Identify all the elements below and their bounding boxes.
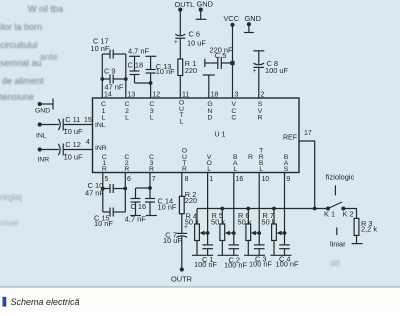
capacitor C18 bbox=[129, 56, 151, 83]
wire VCC to pin3 bbox=[232, 25, 234, 98]
svg-text:2,2 k: 2,2 k bbox=[361, 225, 377, 234]
svg-text:3: 3 bbox=[235, 91, 239, 98]
ground terminal left bbox=[40, 99, 53, 110]
terminal OUTL bbox=[178, 8, 182, 12]
pin name C2L bbox=[125, 101, 130, 122]
svg-text:15: 15 bbox=[84, 117, 92, 124]
svg-text:C 11: C 11 bbox=[65, 115, 80, 124]
svg-text:4,7 nF: 4,7 nF bbox=[128, 46, 149, 55]
svg-text:C 5: C 5 bbox=[215, 51, 227, 60]
svg-text:10 uF: 10 uF bbox=[163, 236, 182, 245]
node wiper R4/pin1 bbox=[206, 231, 210, 235]
IC pin names bbox=[95, 100, 297, 174]
svg-text:10: 10 bbox=[261, 176, 269, 183]
svg-text:de aliment: de aliment bbox=[2, 76, 44, 86]
pin name C1L bbox=[101, 101, 106, 122]
capacitor C14 bbox=[145, 188, 157, 216]
svg-text:L: L bbox=[102, 115, 106, 122]
node wiper R7/pin9 bbox=[283, 231, 287, 235]
wire pin1 column bbox=[207, 173, 209, 245]
pin name C1R bbox=[102, 154, 107, 173]
capacitor C10 bbox=[103, 184, 126, 193]
capacitor C17 bbox=[102, 50, 126, 59]
svg-text:L: L bbox=[180, 118, 184, 125]
node REF/bus bbox=[313, 207, 317, 211]
svg-text:10 nF: 10 nF bbox=[158, 202, 177, 211]
svg-text:GND: GND bbox=[35, 108, 50, 115]
ground bar R5/C2 bbox=[218, 254, 239, 256]
svg-text:liniar: liniar bbox=[330, 239, 346, 248]
svg-text:8: 8 bbox=[185, 176, 189, 183]
wire R2 to C7 bbox=[181, 214, 183, 234]
svg-text:4: 4 bbox=[86, 139, 90, 146]
potentiometer R6 bbox=[246, 209, 259, 256]
IC U1 body bbox=[93, 98, 300, 173]
terminal GND top1 bbox=[199, 8, 203, 12]
potentiometer R7 bbox=[272, 209, 285, 256]
ground GND top2 bbox=[244, 24, 254, 32]
svg-text:C: C bbox=[231, 115, 236, 122]
node pin14/C9 bbox=[100, 77, 104, 81]
svg-text:10 nF: 10 nF bbox=[91, 44, 110, 53]
svg-text:47 nF: 47 nF bbox=[85, 189, 104, 198]
svg-text:GND: GND bbox=[245, 14, 261, 23]
pin name OUTL bbox=[179, 100, 184, 126]
svg-text:INL: INL bbox=[95, 122, 106, 129]
svg-text:circuitului: circuitului bbox=[0, 40, 38, 50]
svg-text:100 nF: 100 nF bbox=[276, 260, 299, 269]
capacitor C5 bbox=[205, 57, 233, 69]
capacitor C4 bbox=[279, 245, 290, 255]
wire pin6 column bbox=[124, 173, 126, 213]
svg-text:50 k: 50 k bbox=[262, 217, 276, 226]
capacitor C15 bbox=[103, 208, 126, 217]
svg-text:C 16: C 16 bbox=[131, 202, 147, 211]
svg-text:W nil tba: W nil tba bbox=[28, 4, 63, 14]
node wiper R5/pin16 bbox=[232, 231, 236, 235]
pin name BAL bbox=[233, 154, 238, 173]
svg-text:C 18: C 18 bbox=[128, 61, 144, 70]
svg-text:11: 11 bbox=[182, 91, 189, 98]
svg-text:R: R bbox=[258, 115, 263, 122]
svg-text:1: 1 bbox=[209, 176, 213, 183]
node wiper R6/pin10 bbox=[257, 231, 261, 235]
svg-text:R: R bbox=[248, 154, 253, 161]
svg-text:L: L bbox=[125, 115, 129, 122]
wire pin13 to C17 bbox=[125, 54, 127, 98]
pin numbers bbox=[84, 91, 312, 183]
potentiometer R5 bbox=[220, 209, 234, 256]
terminal GND left bbox=[38, 102, 42, 106]
node C5/VCC bbox=[230, 61, 234, 65]
ground bar R7/C4 bbox=[271, 254, 292, 256]
svg-text:nivel: nivel bbox=[0, 218, 19, 228]
pin name TRBL bbox=[259, 148, 264, 174]
svg-text:100 uF: 100 uF bbox=[265, 66, 288, 75]
terminal OUTR bbox=[180, 267, 184, 271]
wire R1 to pin11 bbox=[179, 76, 181, 99]
svg-text:+: + bbox=[174, 39, 178, 46]
svg-text:6: 6 bbox=[127, 176, 131, 183]
capacitor C8 bbox=[253, 51, 264, 98]
wire pin8 to R2 bbox=[181, 173, 183, 197]
wire pin7 column bbox=[149, 173, 151, 189]
svg-text:OUTL: OUTL bbox=[175, 0, 195, 9]
node R7 top bbox=[272, 207, 276, 211]
arrowhead wiper R5 bbox=[225, 231, 230, 236]
svg-text:REF: REF bbox=[283, 134, 297, 141]
pin name VCC bbox=[231, 101, 236, 122]
resistor R3 bbox=[354, 218, 359, 235]
pin name C3R bbox=[149, 154, 154, 173]
svg-text:L: L bbox=[150, 115, 154, 122]
svg-text:tensiune: tensiune bbox=[0, 92, 34, 102]
switch position dash liniar bbox=[336, 227, 338, 235]
wire pin16 column bbox=[233, 173, 235, 245]
svg-text:INR: INR bbox=[95, 145, 107, 152]
node pin7/C14 bbox=[148, 186, 152, 190]
svg-text:50 k: 50 k bbox=[211, 217, 225, 226]
svg-text:L: L bbox=[207, 166, 211, 173]
wire C16 top link bbox=[136, 187, 151, 189]
wire pin12 bbox=[150, 83, 152, 98]
wire R3 to ground bbox=[356, 235, 358, 243]
svg-text:17: 17 bbox=[304, 130, 312, 137]
svg-text:GND: GND bbox=[197, 0, 213, 8]
svg-text:220: 220 bbox=[185, 66, 197, 75]
svg-text:INR: INR bbox=[38, 157, 50, 164]
svg-text:D: D bbox=[208, 115, 213, 122]
node K2 contact bbox=[341, 207, 345, 211]
svg-text:VCC: VCC bbox=[224, 14, 240, 23]
svg-text:K 1: K 1 bbox=[324, 209, 335, 218]
svg-text:10 uF: 10 uF bbox=[187, 39, 206, 48]
wire INR to pin4 bbox=[40, 149, 93, 151]
node pin5/C10 bbox=[101, 187, 105, 191]
svg-text:Schema electrică: Schema electrică bbox=[11, 297, 80, 307]
svg-text:16: 16 bbox=[236, 176, 244, 183]
wire pin9 column bbox=[284, 173, 286, 245]
pin name VOL bbox=[206, 154, 211, 173]
terminal INL bbox=[38, 122, 42, 126]
wire pin10 column bbox=[258, 173, 260, 245]
node R5 top bbox=[220, 207, 224, 211]
wire pin5 column bbox=[102, 173, 104, 213]
ground bar pin18 bbox=[203, 75, 215, 98]
svg-text:R: R bbox=[124, 166, 129, 173]
capacitor C6 bbox=[175, 34, 185, 59]
svg-text:OUTR: OUTR bbox=[171, 274, 192, 283]
wire INL to pin15 bbox=[40, 124, 93, 126]
svg-text:9: 9 bbox=[286, 176, 290, 183]
capacitor C7 bbox=[176, 233, 187, 267]
capacitor C11 bbox=[58, 119, 63, 131]
svg-text:50 k: 50 k bbox=[238, 217, 252, 226]
svg-text:220: 220 bbox=[185, 196, 197, 205]
node K1 contact bbox=[326, 207, 330, 211]
capacitor C16 bbox=[130, 188, 141, 216]
capacitor C1 bbox=[202, 245, 213, 255]
svg-text:10 nF: 10 nF bbox=[156, 67, 175, 76]
arrowhead wiper R4 bbox=[200, 231, 205, 236]
arrowhead wiper R7 bbox=[277, 231, 282, 236]
caption icon bbox=[3, 297, 7, 307]
svg-text:R: R bbox=[149, 166, 154, 173]
svg-text:C 12: C 12 bbox=[65, 140, 81, 149]
svg-text:fiziologic: fiziologic bbox=[326, 172, 355, 181]
node pin13/C9 bbox=[124, 77, 128, 81]
svg-text:12: 12 bbox=[152, 91, 160, 98]
svg-text:2: 2 bbox=[261, 91, 265, 98]
capacitor C12 bbox=[58, 144, 63, 156]
pin name C2R bbox=[124, 154, 129, 173]
resistor R2 bbox=[179, 196, 184, 213]
node R6 top bbox=[246, 207, 250, 211]
wire REF pin17 bbox=[299, 141, 315, 209]
wire OUTL terminal to C6 bbox=[179, 10, 181, 36]
switch K1 arm bbox=[328, 202, 342, 209]
terminal INR bbox=[38, 147, 42, 151]
ground GND top1 bbox=[196, 10, 207, 20]
svg-text:10 nF: 10 nF bbox=[94, 219, 113, 228]
pin name BAS bbox=[284, 154, 289, 173]
capacitor C2 bbox=[229, 245, 240, 255]
wire K2 to R3 bbox=[343, 209, 356, 219]
pin name SVR bbox=[258, 101, 263, 122]
svg-text:100 nF: 100 nF bbox=[194, 260, 217, 269]
svg-text:U 1: U 1 bbox=[215, 132, 226, 139]
capacitor C13 bbox=[145, 56, 156, 83]
node pin12/C18/C13 bbox=[149, 81, 153, 85]
ground bar R4/C1 bbox=[192, 254, 213, 256]
svg-text:semnal au: semnal au bbox=[0, 58, 42, 68]
svg-text:C 9: C 9 bbox=[104, 66, 116, 75]
svg-text:INL: INL bbox=[36, 133, 47, 140]
svg-text:18: 18 bbox=[211, 91, 219, 98]
pin name OUTR bbox=[182, 148, 187, 174]
svg-text:7: 7 bbox=[152, 176, 156, 183]
svg-text:5: 5 bbox=[105, 176, 109, 183]
potentiometer R4 bbox=[195, 209, 208, 256]
arrowhead wiper R6 bbox=[251, 231, 256, 236]
faint bleed-through ghost text bbox=[0, 4, 341, 268]
ground bar R3 bbox=[352, 243, 363, 245]
terminal VCC bbox=[230, 23, 234, 27]
svg-text:L: L bbox=[259, 166, 263, 173]
svg-text:R: R bbox=[182, 166, 187, 173]
svg-text:L: L bbox=[233, 166, 237, 173]
svg-text:13: 13 bbox=[128, 91, 136, 98]
svg-text:47 nF: 47 nF bbox=[105, 83, 124, 92]
junction and terminal dots bbox=[38, 8, 346, 272]
pin name GND bbox=[207, 101, 212, 122]
svg-text:ante: ante bbox=[40, 52, 58, 62]
svg-text:reglaj: reglaj bbox=[0, 192, 22, 202]
capacitor C9 bbox=[102, 75, 126, 84]
switch position dash fiziologic bbox=[334, 185, 336, 195]
wire pin14 to C17 bbox=[101, 54, 103, 98]
resistor R1 bbox=[178, 59, 183, 76]
svg-text:ilor la born: ilor la born bbox=[0, 22, 42, 32]
svg-text:100 nF: 100 nF bbox=[249, 260, 272, 269]
node pin6/C10 bbox=[123, 187, 127, 191]
svg-text:100 nF: 100 nF bbox=[224, 260, 247, 269]
svg-text:S: S bbox=[284, 166, 289, 173]
svg-text:R: R bbox=[102, 166, 107, 173]
svg-text:C 6: C 6 bbox=[189, 30, 201, 39]
svg-text:K 2: K 2 bbox=[343, 209, 354, 218]
ground bar R6/C3 bbox=[244, 254, 265, 256]
svg-text:+: + bbox=[64, 152, 68, 159]
svg-text:+: + bbox=[253, 68, 257, 75]
svg-text:+: + bbox=[184, 224, 188, 231]
svg-text:+: + bbox=[64, 127, 68, 134]
svg-text:14: 14 bbox=[104, 91, 112, 98]
terminal GND top2 bbox=[247, 22, 251, 26]
svg-text:4,7 nF: 4,7 nF bbox=[125, 215, 146, 224]
pin name C3L bbox=[149, 101, 154, 122]
wire wiper bus bbox=[197, 208, 328, 210]
capacitor C3 bbox=[254, 245, 265, 255]
svg-text:att: att bbox=[330, 258, 341, 268]
